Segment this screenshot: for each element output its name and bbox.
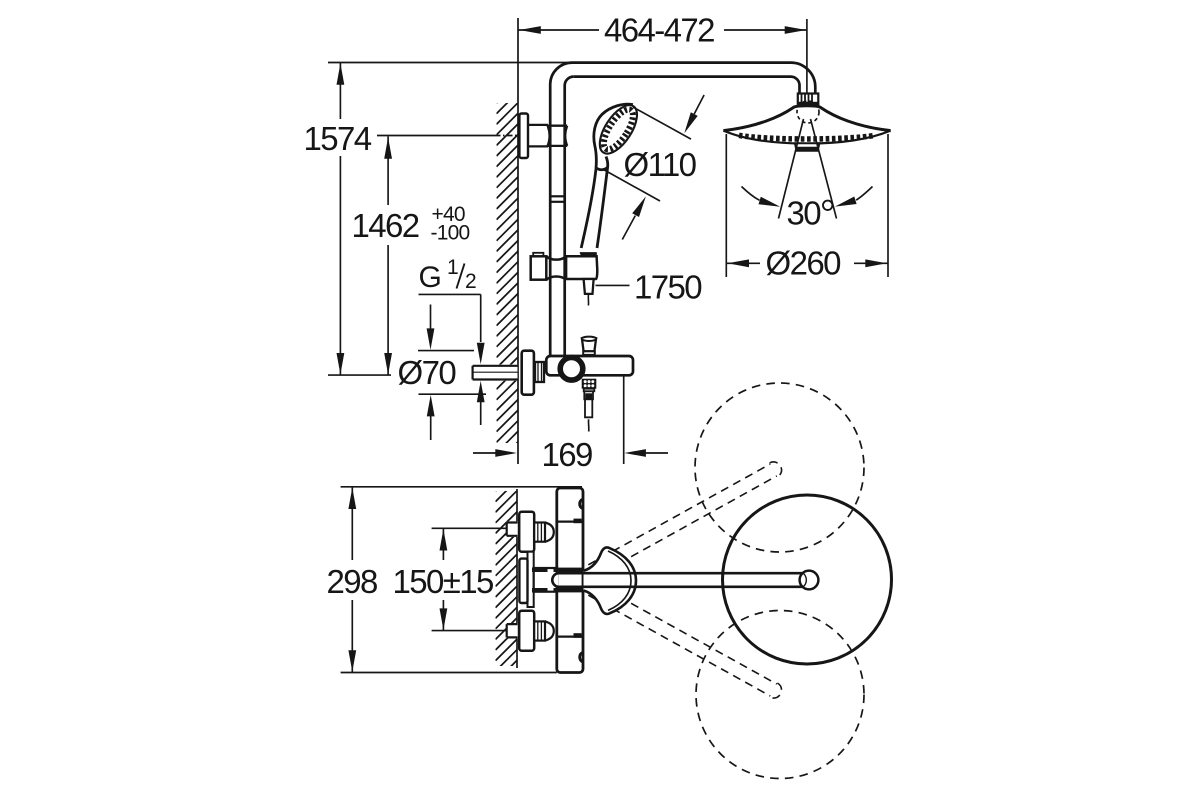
dimension 1574 left [328, 63, 572, 376]
svg-text:169: 169 [542, 436, 593, 473]
swivel angle lines [779, 119, 804, 219]
dimension O110 (hand shower face) [603, 95, 704, 240]
slide rod (plan) [552, 573, 803, 587]
spray nozzle band [739, 135, 875, 139]
svg-text:Ø70: Ø70 [398, 354, 457, 391]
rain shower head under edge [723, 131, 890, 144]
ghost upper swivel rod (dashed) [588, 459, 785, 578]
svg-text:2: 2 [465, 270, 476, 293]
ghost lower swivel rod (dashed) [588, 582, 785, 701]
rail foot cylinder (plan) [534, 568, 557, 592]
hose fitting cone below holder [584, 279, 594, 294]
holder right block (hand shower seat) [566, 256, 597, 279]
holder clamp waist on rail [546, 256, 566, 279]
rail foot plate (plan) [528, 552, 534, 607]
center boss under head [795, 143, 819, 151]
holder left block on rail [533, 253, 543, 257]
rod end cap [800, 571, 819, 590]
supply pipe stub in wall [473, 365, 518, 381]
svg-text:-100: -100 [431, 222, 470, 245]
rail joint seam [550, 196, 565, 202]
svg-text:1574: 1574 [304, 120, 372, 157]
right swivel arc arrow [856, 187, 872, 201]
svg-text:Ø260: Ø260 [766, 245, 842, 282]
rain shower ball-joint nut [798, 94, 819, 106]
label 1750 (hose length) with leader [596, 284, 630, 286]
dimension 464-472 top [519, 19, 807, 94]
trumpet escutcheon (plan) [584, 547, 637, 614]
svg-text:G: G [419, 261, 442, 294]
diverter outlet below body (knurled) [582, 379, 597, 389]
thermostat mixer body (front view) [546, 356, 633, 375]
top supply connection (plan) [507, 521, 518, 537]
dimension O70 flange [418, 305, 486, 441]
thermostat ring knob [560, 358, 583, 381]
svg-text:1750: 1750 [634, 268, 702, 305]
hand shower head back shell [594, 104, 633, 169]
dimension 1462 +40/-100 [377, 136, 518, 375]
svg-text:464-472: 464-472 [604, 12, 714, 49]
hand shower inlet dark cap [580, 252, 597, 260]
hand shower face rim [592, 99, 644, 159]
bracket collar on rail [548, 126, 568, 146]
wall flange escutcheon O70 (front view) [522, 351, 534, 395]
spray reach circle lower (dashed) [696, 611, 864, 779]
shower arm (horizontal with bends) [572, 63, 815, 95]
dimension 298 [341, 487, 582, 673]
spray reach circle upper (dashed) [695, 383, 864, 552]
svg-text:30: 30 [787, 194, 822, 231]
mixer body (plan view) [557, 488, 583, 673]
wall line (upper elevation view) [517, 18, 519, 464]
svg-text:Ø110: Ø110 [624, 146, 697, 183]
shower rail pipe (vertical) [550, 63, 574, 355]
dashed ball joint circle [797, 101, 819, 123]
dimension 169 [473, 377, 668, 465]
spray nozzle tick ring [598, 105, 638, 153]
spray reach circle (solid, hand shower mid) [723, 495, 892, 664]
svg-text:1: 1 [447, 256, 458, 279]
rail wall bracket [519, 114, 528, 159]
dimension 150+-15 [432, 528, 507, 630]
bottom supply connection (plan) [507, 623, 518, 639]
top diverter knob [582, 338, 596, 351]
svg-text:298: 298 [327, 563, 378, 600]
svg-text:1462: 1462 [352, 207, 419, 244]
clamp dark bars [532, 568, 548, 572]
rain shower head top profile [723, 106, 890, 131]
left swivel arc arrow [742, 187, 760, 201]
hand shower handle [581, 157, 608, 249]
svg-text:150±15: 150±15 [393, 563, 494, 600]
body port divider lines [558, 520, 584, 522]
body screw notches [580, 499, 583, 509]
wall line (plan view) [516, 489, 518, 668]
dimension O260 [726, 134, 888, 277]
union nut at mixer inlet [535, 362, 544, 382]
